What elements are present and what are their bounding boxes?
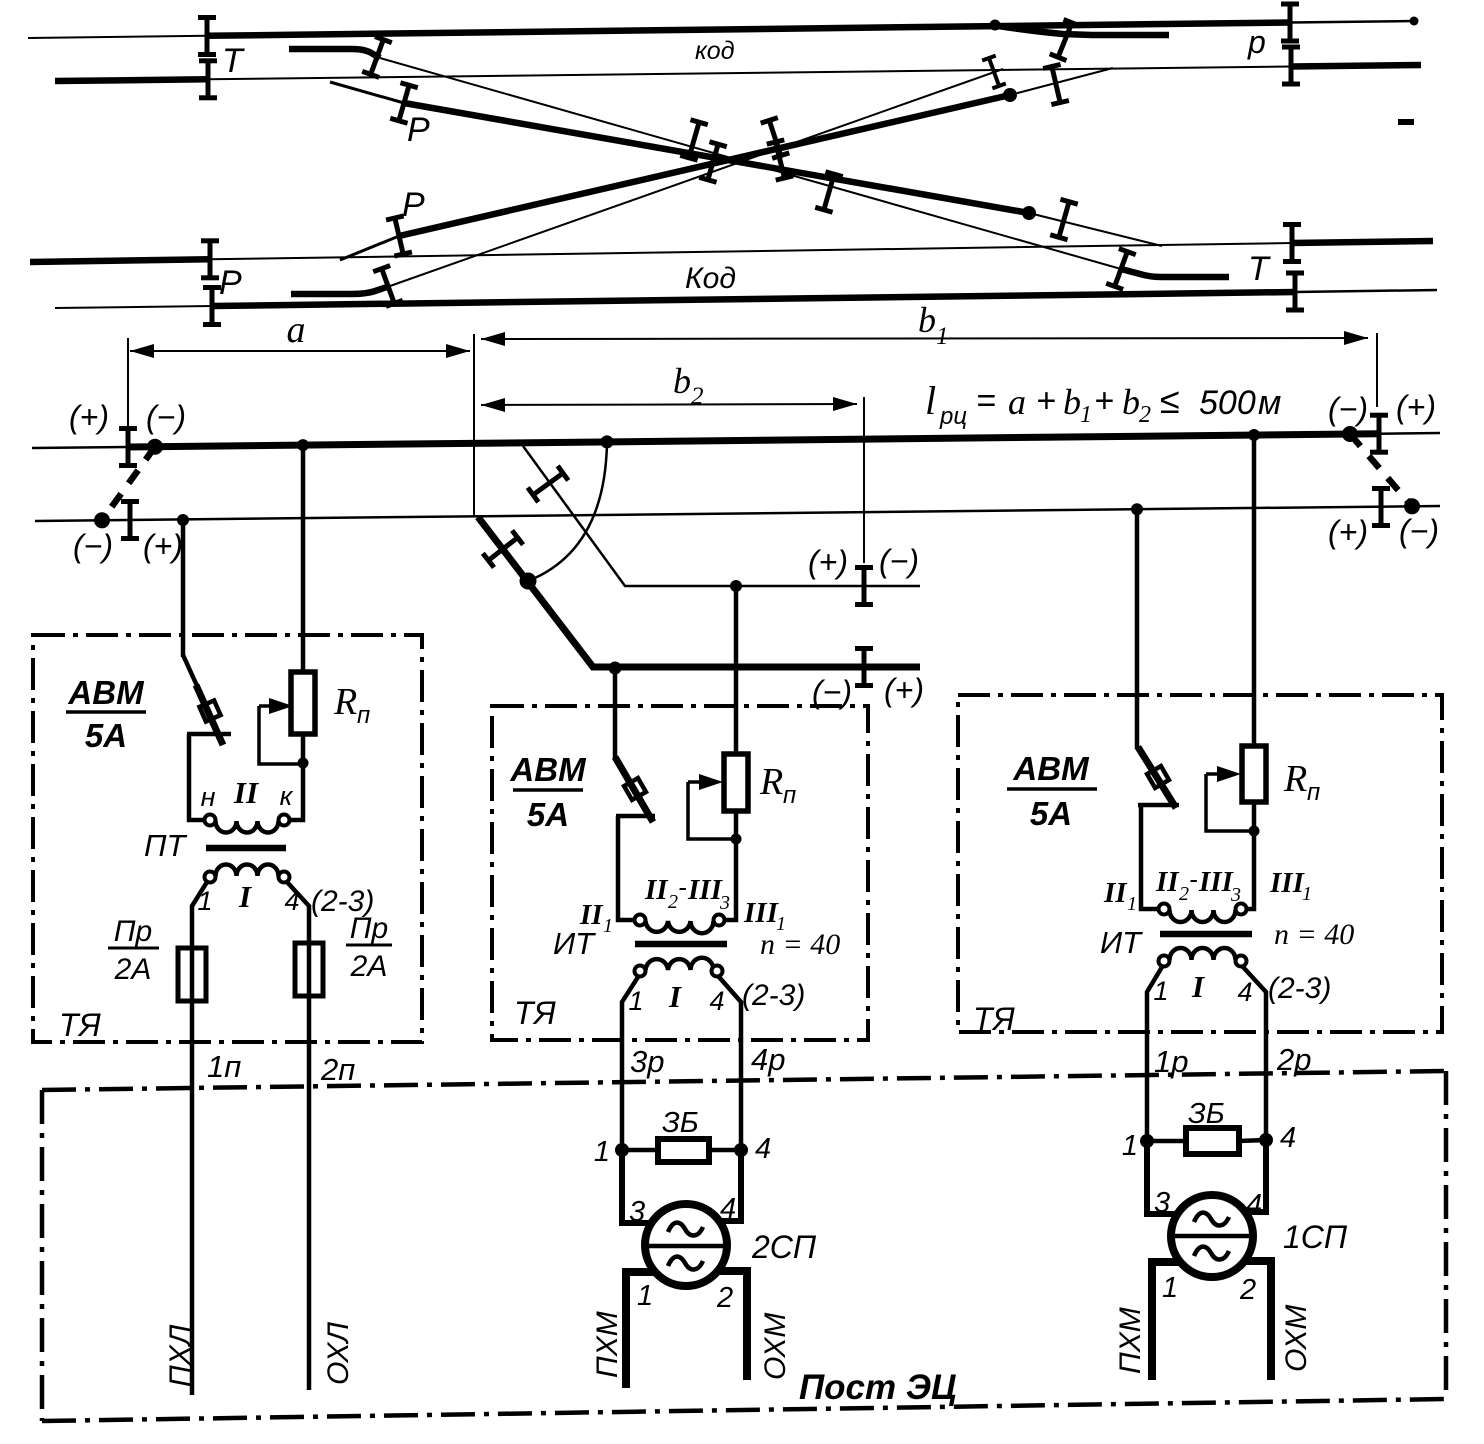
breaker ABM blade block2 xyxy=(615,757,653,822)
wire branch to block2 xyxy=(613,668,618,759)
junction dot 4 right xyxy=(1259,1133,1273,1147)
svg-text:n = 40: n = 40 xyxy=(760,928,840,961)
svg-text:Р: Р xyxy=(219,264,242,302)
wire rail1 to block1 Rp xyxy=(301,445,306,672)
dashed polarity jumper right xyxy=(1350,434,1412,506)
insulated joint branch thick end xyxy=(855,646,873,688)
svg-text:Пр: Пр xyxy=(114,915,152,948)
svg-text:3: 3 xyxy=(719,892,730,914)
insulated joint turnout top-left xyxy=(361,34,392,80)
svg-text:Р: Р xyxy=(407,111,430,149)
rail 2B thin left xyxy=(55,306,212,308)
wire winding I right to fuse xyxy=(287,882,309,1390)
svg-text:Пост ЭЦ: Пост ЭЦ xyxy=(799,1368,957,1407)
svg-text:Пр: Пр xyxy=(350,912,388,945)
svg-text:II: II xyxy=(233,775,259,810)
svg-text:2: 2 xyxy=(1239,1274,1256,1306)
breaker square block2 xyxy=(624,778,646,800)
svg-text:3: 3 xyxy=(1154,1187,1170,1219)
rail 2B thick middle xyxy=(212,292,1295,306)
svg-text:(2-3): (2-3) xyxy=(1268,972,1331,1005)
wiper loop wire block3 xyxy=(1206,774,1249,831)
wire to relay 1SP left xyxy=(1147,1141,1177,1214)
junction dot turnout top-right xyxy=(990,20,1001,31)
crossover branch from rail1B xyxy=(330,82,404,103)
svg-text:1: 1 xyxy=(1080,402,1092,428)
svg-text:R: R xyxy=(759,761,783,803)
insulated joint rail2A left xyxy=(201,238,219,280)
svg-text:Р: Р xyxy=(402,186,425,224)
transformer IT core block3 xyxy=(1160,931,1252,938)
breaker contact tick block1 xyxy=(187,732,231,737)
junction dot branch thick xyxy=(609,662,622,675)
wire winding I right down block2 xyxy=(719,977,741,1150)
wire to relay 1SP right xyxy=(1241,1140,1266,1212)
enclosure TYa box 3 xyxy=(958,695,1442,1032)
svg-text:a: a xyxy=(1008,382,1026,422)
arrowhead a right xyxy=(446,344,470,358)
wiper arrow block2 xyxy=(688,780,712,784)
dashed polarity jumper left xyxy=(102,447,155,521)
insulated joint on T2 right xyxy=(981,54,1006,90)
svg-text:АВМ: АВМ xyxy=(67,674,145,711)
enclosure TYa box 2 xyxy=(492,706,868,1040)
svg-text:ОХМ: ОХМ xyxy=(1280,1305,1313,1372)
transformer IT winding I block2 xyxy=(646,958,714,970)
dimension line b1 xyxy=(481,338,1368,339)
svg-text:ТЯ: ТЯ xyxy=(514,995,556,1031)
insulated joint rail2B right xyxy=(1286,271,1304,313)
svg-text:ЗБ: ЗБ xyxy=(662,1107,699,1139)
transformer IT core block2 xyxy=(635,941,727,948)
breaker contact tick block2 xyxy=(616,814,655,819)
transformer PT core xyxy=(206,845,286,852)
resistor Rp block1 xyxy=(291,672,315,734)
breaker contact tick block3 xyxy=(1138,803,1179,808)
enclosure Post EC top xyxy=(42,1071,1446,1090)
wiper loop wire block2 xyxy=(688,782,731,839)
svg-text:l: l xyxy=(925,378,936,423)
svg-text:код: код xyxy=(695,37,735,65)
svg-text:b: b xyxy=(1122,382,1140,422)
dimension line b2 xyxy=(481,404,857,405)
extension line mid xyxy=(473,334,475,517)
svg-text:2п: 2п xyxy=(320,1052,355,1087)
wire winding I left down block3 xyxy=(1147,967,1162,1141)
svg-text:II: II xyxy=(1155,866,1180,898)
svg-text:ПТ: ПТ xyxy=(144,828,187,863)
junction dot on D-up xyxy=(1003,88,1017,102)
insulated joint on D-up right xyxy=(1043,62,1070,107)
svg-text:Код: Код xyxy=(685,262,736,295)
formula l = a+b1+b2 <= 500m xyxy=(925,378,1281,430)
svg-text:1: 1 xyxy=(1122,1130,1138,1162)
scan speck top right xyxy=(1398,119,1414,125)
wire breaker to winding II block1 xyxy=(189,734,205,820)
junction dot on D-down xyxy=(1022,206,1036,220)
svg-text:5А: 5А xyxy=(1030,795,1072,832)
svg-text:b: b xyxy=(1063,382,1081,422)
svg-text:ПХМ: ПХМ xyxy=(1114,1307,1147,1374)
svg-text:2СП: 2СП xyxy=(751,1229,817,1265)
junction dot wiper block1 xyxy=(298,758,309,769)
rail 1A thick middle xyxy=(207,23,1290,36)
svg-text:(+): (+) xyxy=(143,528,183,564)
wire winding I left down block2 xyxy=(622,977,638,1150)
arrowhead b1 right xyxy=(1344,331,1368,345)
svg-text:к: к xyxy=(280,781,294,811)
resistor Rp block2 xyxy=(724,754,748,811)
wiper loop wire block1 xyxy=(259,706,298,764)
crossover branch from rail2A xyxy=(340,236,399,260)
insulated joint on D-down mid xyxy=(699,139,728,184)
insulated joint on D-up mid xyxy=(766,137,794,182)
insulated joint turnout bottom-left xyxy=(372,263,403,309)
svg-text:1п: 1п xyxy=(207,1049,241,1084)
rail 1B thin middle xyxy=(208,67,1291,80)
resistor ZB middle xyxy=(658,1139,709,1162)
svg-text:III: III xyxy=(1198,866,1235,898)
transformer PT winding I block1 xyxy=(216,865,279,877)
turnout lead top-right xyxy=(992,25,1169,35)
wire Rp bottom block3 xyxy=(1247,802,1255,909)
junction dot rail1 to block3 xyxy=(1248,429,1260,441)
svg-text:II: II xyxy=(1103,877,1128,909)
svg-text:м: м xyxy=(1258,384,1281,422)
insulated joint on D-down xyxy=(390,80,419,125)
crossover diagonal T1 thin xyxy=(380,58,1121,269)
svg-text:I: I xyxy=(238,879,252,914)
cable leg 1SP right xyxy=(1244,1261,1271,1380)
turnout lead bottom-left xyxy=(291,286,390,294)
junction dot wiper block2 xyxy=(731,834,742,845)
wire rail2 to block1 xyxy=(181,520,186,657)
svg-text:R: R xyxy=(1283,758,1307,800)
junction dot rail2 left xyxy=(94,512,110,528)
svg-text:1: 1 xyxy=(936,323,949,350)
crossover diagonal D-down thick xyxy=(404,103,1029,213)
svg-text:4: 4 xyxy=(1280,1122,1296,1154)
wire breaker to winding block2 xyxy=(618,816,634,920)
junction dot 4 middle xyxy=(734,1143,748,1157)
D-up thin continuation xyxy=(1010,68,1113,95)
rail 2 thin xyxy=(35,506,1440,521)
svg-text:II: II xyxy=(644,874,669,906)
svg-text:ТЯ: ТЯ xyxy=(973,1001,1015,1037)
wire rail2 to block3 xyxy=(1135,509,1140,749)
svg-text:III: III xyxy=(1269,867,1306,899)
transformer IT winding II block2 xyxy=(635,915,646,926)
junction dot rail1 to block1 xyxy=(297,439,309,451)
wire branch thin to block2 Rp xyxy=(734,586,739,754)
svg-text:(−): (−) xyxy=(1328,391,1368,427)
insulated joint on D-down right xyxy=(1050,197,1079,242)
svg-text:n = 40: n = 40 xyxy=(1274,918,1354,951)
cable leg 2SP left xyxy=(626,1272,653,1388)
svg-text:н: н xyxy=(201,782,216,812)
junction dot rail2 to block1 xyxy=(177,514,189,526)
svg-text:(+): (+) xyxy=(884,672,924,708)
svg-text:III: III xyxy=(687,874,724,906)
turnout lead bottom-right xyxy=(1121,269,1229,277)
svg-text:I: I xyxy=(1191,969,1205,1004)
breaker ABM blade block3 xyxy=(1138,747,1176,808)
svg-text:b: b xyxy=(918,300,936,340)
insulated joint branch thin diagonal xyxy=(526,464,571,503)
insulated joint rail1B left xyxy=(199,58,217,100)
insulated joint on D-up left xyxy=(386,214,413,259)
wire to relay 2SP left xyxy=(622,1150,652,1223)
track relay 1SP xyxy=(1171,1195,1253,1277)
svg-text:(2-3): (2-3) xyxy=(742,979,805,1012)
svg-text:2: 2 xyxy=(691,383,704,410)
insulated joint rail1 left xyxy=(119,426,137,468)
insulated joint rail2A right xyxy=(1283,222,1301,264)
junction dot rail2 to block3 xyxy=(1131,503,1143,515)
cable leg 2SP right xyxy=(718,1271,747,1380)
insulated joint on T1 xyxy=(680,117,709,162)
svg-text:500: 500 xyxy=(1199,384,1256,422)
insulated joint turnout top-right xyxy=(1049,17,1081,63)
svg-text:Т: Т xyxy=(1248,250,1271,288)
rail 2A thick left xyxy=(30,259,210,262)
junction dot 1 right xyxy=(1140,1134,1154,1148)
svg-text:ОХМ: ОХМ xyxy=(759,1313,792,1380)
svg-text:(+): (+) xyxy=(808,544,848,580)
svg-text:2: 2 xyxy=(1139,402,1151,428)
svg-text:1: 1 xyxy=(637,1280,653,1312)
breaker square block3 xyxy=(1147,766,1169,788)
rail 1 thin right xyxy=(1379,432,1440,435)
D-down thin continuation xyxy=(1029,213,1162,246)
svg-text:4: 4 xyxy=(755,1133,771,1165)
rail 1 thin left xyxy=(32,447,128,448)
svg-text:п: п xyxy=(783,782,796,809)
svg-text:Т: Т xyxy=(222,42,245,80)
svg-text:ПХЛ: ПХЛ xyxy=(164,1324,197,1387)
svg-text:1: 1 xyxy=(594,1136,610,1168)
branch thin rail xyxy=(523,446,920,586)
insulated joint rail2 left xyxy=(121,499,139,541)
svg-text:III: III xyxy=(743,897,780,929)
arrowhead b1 left xyxy=(481,332,505,346)
wiper arrow block1 xyxy=(259,704,282,708)
arrowhead a left xyxy=(130,344,154,358)
svg-text:I: I xyxy=(668,979,682,1014)
branch connecting arc xyxy=(528,442,607,581)
svg-text:АВМ: АВМ xyxy=(1012,750,1090,787)
svg-text:5А: 5А xyxy=(527,796,569,833)
insulated joint rail2 right xyxy=(1372,486,1390,528)
resistor ZB right xyxy=(1186,1128,1239,1154)
svg-text:(−): (−) xyxy=(73,528,113,564)
svg-text:ОХЛ: ОХЛ xyxy=(322,1322,355,1385)
svg-text:1: 1 xyxy=(603,915,613,937)
svg-text:2А: 2А xyxy=(114,953,152,986)
svg-text:ИТ: ИТ xyxy=(553,926,596,961)
extension line b1 right xyxy=(1376,333,1378,407)
svg-text:-: - xyxy=(1189,864,1198,894)
fuse Pr left xyxy=(178,948,206,1001)
svg-text:R: R xyxy=(333,681,357,723)
wire winding I left to fuse xyxy=(192,882,207,1395)
svg-text:1: 1 xyxy=(1127,893,1137,915)
dimension line a xyxy=(130,350,470,352)
svg-text:ЗБ: ЗБ xyxy=(1188,1098,1225,1130)
junction dot rail2 far right xyxy=(1404,498,1420,514)
svg-text:=: = xyxy=(976,382,996,420)
svg-text:4: 4 xyxy=(709,986,724,1016)
rail 1B thick left xyxy=(55,79,208,81)
wire rail1 to block3 Rp xyxy=(1252,435,1257,746)
rail 2A thick right xyxy=(1292,241,1433,243)
svg-text:(+): (+) xyxy=(1328,514,1368,550)
svg-text:-: - xyxy=(678,872,687,902)
svg-text:(−): (−) xyxy=(146,399,186,435)
crossover diagonal D-up thick xyxy=(399,95,1010,236)
svg-text:п: п xyxy=(357,702,370,729)
resistor Rp block3 xyxy=(1242,746,1266,802)
svg-text:ИТ: ИТ xyxy=(1100,925,1143,960)
wire breaker to winding block3 xyxy=(1141,805,1158,909)
rail 1A end dot xyxy=(1410,17,1419,26)
insulated joint rail1 right xyxy=(1370,413,1388,455)
svg-text:р: р xyxy=(1247,24,1266,60)
wire Rp bottom block1 xyxy=(290,734,304,820)
rail 2A thin middle xyxy=(210,243,1292,259)
junction dot branch thin xyxy=(730,580,742,592)
svg-text:4р: 4р xyxy=(751,1042,785,1077)
transformer IT winding I block3 xyxy=(1170,948,1236,960)
rail 1 thick xyxy=(128,434,1379,447)
junction dot wiper block3 xyxy=(1249,826,1260,837)
breaker ABM blade block1 xyxy=(183,655,198,688)
arrowhead b2 left xyxy=(481,398,505,412)
svg-text:АВМ: АВМ xyxy=(509,751,587,788)
resistor ZB middle leads xyxy=(622,1148,741,1153)
junction dot branch arc xyxy=(520,573,537,590)
wiper arrow block3 xyxy=(1206,772,1230,776)
resistor ZB right leads xyxy=(1147,1140,1266,1141)
junction dot 1 middle xyxy=(615,1143,629,1157)
fuse Pr right xyxy=(295,943,323,996)
svg-text:2: 2 xyxy=(668,891,678,913)
svg-text:3: 3 xyxy=(629,1196,645,1228)
svg-text:1: 1 xyxy=(1302,883,1312,905)
svg-text:b: b xyxy=(673,361,691,401)
svg-text:2: 2 xyxy=(716,1282,733,1314)
insulated joint rail1A right xyxy=(1281,2,1299,44)
svg-text:2: 2 xyxy=(1179,883,1189,905)
svg-text:(−): (−) xyxy=(1399,513,1439,549)
transformer PT winding II block1 xyxy=(205,815,216,826)
crossover diagonal T2 thin xyxy=(390,69,1003,286)
branch thick rail xyxy=(478,517,920,667)
svg-text:1: 1 xyxy=(1162,1272,1178,1304)
transformer IT winding II block3 xyxy=(1159,904,1170,915)
insulated joint rail1B right xyxy=(1282,45,1300,87)
extension line a left xyxy=(127,338,129,468)
wire Rp bottom block2 xyxy=(725,811,737,920)
track relay 2SP xyxy=(645,1204,727,1286)
svg-text:2А: 2А xyxy=(350,950,388,983)
svg-text:(+): (+) xyxy=(69,399,109,435)
enclosure Post EC left xyxy=(40,1090,45,1421)
svg-text:4: 4 xyxy=(1237,977,1252,1007)
svg-text:ПХМ: ПХМ xyxy=(591,1311,624,1378)
junction dot rail1 far right xyxy=(1342,426,1358,442)
enclosure TYa box 1 xyxy=(33,635,422,1042)
svg-text:п: п xyxy=(1307,779,1320,806)
svg-text:(+): (+) xyxy=(1396,389,1436,425)
enclosure Post EC right xyxy=(1444,1071,1449,1399)
svg-text:ТЯ: ТЯ xyxy=(59,1007,101,1043)
rail 2B thin right xyxy=(1295,290,1437,292)
enclosure Post EC bottom xyxy=(42,1399,1446,1421)
arrowhead b2 right xyxy=(833,397,857,411)
breaker square block1 xyxy=(199,700,220,721)
insulated joint branch thick diagonal xyxy=(481,529,525,569)
svg-text:a: a xyxy=(287,309,306,351)
insulated joint on T1 lower xyxy=(815,169,844,214)
turnout lead top-left xyxy=(289,49,380,58)
svg-text:5А: 5А xyxy=(85,717,127,754)
cable leg 1SP left xyxy=(1152,1262,1179,1380)
rail 1A thin left xyxy=(28,36,207,38)
junction dot rail1 left xyxy=(147,439,163,455)
wire winding I right down block3 xyxy=(1243,967,1266,1140)
svg-text:+: + xyxy=(1094,382,1114,420)
insulated joint turnout bottom-right xyxy=(1105,246,1136,292)
rail 1B thick right xyxy=(1291,65,1421,67)
wire to relay 2SP right xyxy=(715,1150,741,1221)
svg-text:≤: ≤ xyxy=(1160,380,1180,421)
svg-text:3р: 3р xyxy=(630,1044,664,1079)
insulated joint branch thin end xyxy=(855,565,873,607)
insulated joint rail1A left xyxy=(198,15,216,57)
rail 1A thin right xyxy=(1290,21,1414,23)
svg-text:+: + xyxy=(1036,382,1056,420)
svg-text:1СП: 1СП xyxy=(1283,1219,1348,1255)
junction dot rail1 branch xyxy=(601,435,614,448)
svg-text:рц: рц xyxy=(939,403,967,430)
insulated joint on T2 mid xyxy=(760,115,790,161)
insulated joint rail2B left xyxy=(203,285,221,327)
extension line b2 right xyxy=(863,397,865,563)
svg-text:(−): (−) xyxy=(879,543,919,579)
